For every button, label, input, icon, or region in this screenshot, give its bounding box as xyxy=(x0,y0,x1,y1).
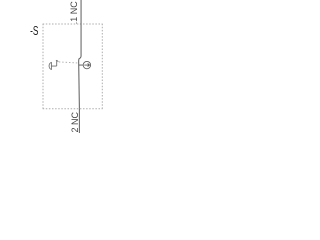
actuator link bar xyxy=(56,60,58,66)
component boundary dashed box: top edge xyxy=(43,23,103,25)
pushbutton cap actuator xyxy=(49,62,51,69)
svg-text:-S: -S xyxy=(30,24,38,38)
svg-text:.1 NC: .1 NC xyxy=(69,1,79,25)
positive opening symbol circle xyxy=(83,61,90,68)
component boundary dashed box: right edge xyxy=(101,24,103,109)
positive opening arrow xyxy=(84,64,89,67)
fixed contact hook xyxy=(79,56,81,58)
actuator stem xyxy=(51,65,56,67)
contact blade (moving contact, NC closed) xyxy=(78,58,81,108)
component boundary dashed box: left edge xyxy=(42,24,44,109)
component boundary dashed box: bottom edge xyxy=(43,108,103,110)
wire: top terminal .1 xyxy=(80,0,82,56)
wire: bottom terminal .2 xyxy=(78,109,80,133)
connector blade to positive-opening symbol xyxy=(79,64,83,66)
svg-text:.2 NC: .2 NC xyxy=(70,111,80,133)
dashed mechanical link xyxy=(59,62,78,63)
